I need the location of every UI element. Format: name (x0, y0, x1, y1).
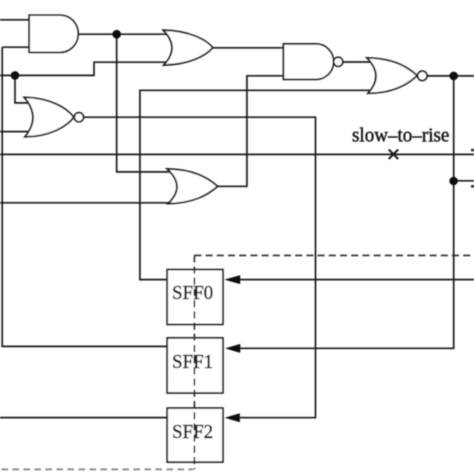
wire NOR-U3 output net down to SFF2 clock arrow (84, 117, 316, 418)
fault marker X on slow-to-rise wire (389, 150, 399, 160)
flip-flop SFF1 box (167, 338, 223, 393)
wire SFF0 output to right edge (240, 279, 474, 281)
nor gate U6 body (367, 58, 417, 94)
dashed boundary horizontal lower gray (2, 468, 194, 470)
wire NOR-U6 input B net from vertical to gate (140, 90, 371, 279)
wire AND-U1 output to OR-U2 input A (78, 33, 169, 35)
edge tick upper right (471, 149, 474, 151)
wire AND-U1 input A from left edge (0, 19, 30, 21)
flip-flop SFF0 box (167, 270, 223, 325)
arrowhead into SFF0 (224, 275, 240, 284)
wire AND-U1 input B stub (2, 46, 30, 48)
wire left vertical bus to SFF1 D input (2, 47, 167, 346)
wire NAND-U4 output to NOR-U6 input A (343, 61, 372, 63)
wire node-D to right edge (454, 180, 474, 182)
junction node D on right vertical (449, 177, 458, 186)
wire OR-U5 output up to NAND-U4 input B (218, 76, 284, 187)
or gate U5 (167, 169, 218, 204)
wire SFF2 D input from left edge (0, 417, 168, 419)
arrowhead into SFF1 (225, 344, 240, 353)
wire NOR-U3 input B from left edge (0, 131, 30, 133)
wire node-B horizontal with step up to OR-U2 input B (0, 62, 170, 75)
nor gate U3 bubble (74, 113, 83, 122)
dashed boundary horizontal upper (194, 254, 474, 256)
nor gate U3 body (24, 97, 74, 137)
and gate U1 (29, 15, 78, 52)
wire OR-U5 input B from left edge (0, 202, 172, 204)
junction node B on left input net (11, 71, 20, 80)
or gate U2 (163, 30, 213, 65)
svg-text:slow–to–rise: slow–to–rise (352, 124, 450, 147)
edge tick lower right (471, 185, 474, 187)
wire OR-U2 output to NAND-U4 input A (213, 47, 284, 49)
svg-text:SFF2: SFF2 (172, 421, 213, 443)
nor gate U6 bubble (418, 71, 427, 80)
nand gate U4 bubble (334, 57, 343, 66)
flip-flop SFF2 box (167, 408, 223, 462)
dashed boundary vertical through scan flip-flops (193, 255, 195, 469)
junction node A on AND output (112, 30, 121, 39)
wire NOR-U6 output to right edge (427, 75, 474, 77)
svg-text:SFF1: SFF1 (172, 352, 213, 374)
wire node-A vertical down to OR-U5 input A (117, 34, 171, 172)
wire node-B down to NOR-U3 input A (15, 75, 30, 103)
nand gate U4 body (283, 44, 333, 80)
arrowhead into SFF2 (225, 413, 240, 422)
wire right vertical from node-C down to SFF1 clock arrow (240, 76, 454, 348)
svg-text:SFF0: SFF0 (172, 282, 213, 304)
junction node C on NOR-U6 output (449, 72, 458, 81)
wire slow-to-rise net (0, 153, 474, 155)
